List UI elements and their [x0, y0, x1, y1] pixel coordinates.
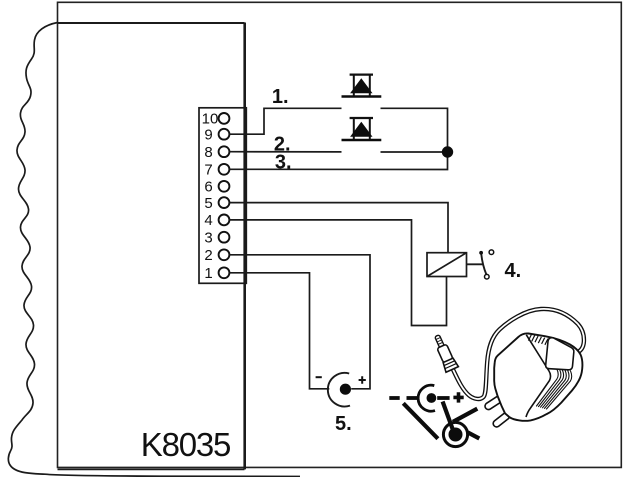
- pin 5: [219, 197, 230, 208]
- plug barrel pin: [449, 428, 463, 442]
- switch terminal bottom: [485, 274, 490, 279]
- pin 6: [219, 181, 230, 192]
- adapter side ridges: [537, 369, 572, 409]
- adapter body: [494, 333, 582, 420]
- pin 8: [219, 146, 230, 157]
- polarity barrel arc: [418, 385, 435, 411]
- wire pin 4 to relay coil bottom: [229, 220, 446, 326]
- svg-text:4: 4: [204, 212, 212, 229]
- pin 9: [219, 129, 230, 140]
- wire pin 2 to supply positive: [229, 255, 370, 389]
- adapter top hatch: [528, 334, 551, 345]
- svg-text:3.: 3.: [275, 151, 292, 173]
- plug sketch line upper right: [453, 409, 477, 422]
- pin 2: [219, 249, 230, 260]
- adapter label panel: [546, 338, 574, 370]
- pin 1: [219, 267, 230, 278]
- svg-text:5.: 5.: [335, 413, 352, 435]
- svg-text:2: 2: [204, 247, 212, 264]
- svg-text:4.: 4.: [505, 260, 522, 282]
- svg-text:3: 3: [204, 229, 212, 246]
- switch terminal top: [489, 250, 494, 255]
- svg-text:K8035: K8035: [141, 426, 230, 463]
- DC plug: [431, 333, 459, 372]
- relay actuating link: [467, 263, 484, 265]
- svg-text:5: 5: [204, 195, 212, 212]
- connector SK1 box: [199, 108, 246, 283]
- pin 7: [219, 164, 230, 175]
- DC power input connector (5.): [316, 373, 366, 407]
- svg-text:9: 9: [204, 126, 212, 143]
- svg-text:1.: 1.: [272, 86, 289, 108]
- wire pin 7 common return (circuit 3): [229, 152, 447, 170]
- wire LED2 cathode to junction: [381, 151, 448, 153]
- plug sketch line long: [403, 403, 438, 438]
- svg-text:10: 10: [202, 111, 219, 128]
- wire pin 1 to supply negative: [229, 273, 329, 389]
- plug sketch line from pin: [443, 402, 453, 430]
- polarity dash right: [437, 396, 449, 400]
- svg-text:1: 1: [204, 265, 212, 282]
- wire pin 5 to relay coil top: [229, 203, 448, 253]
- polarity dash left: [407, 396, 418, 400]
- pin 4: [219, 215, 230, 226]
- svg-text:6: 6: [204, 179, 212, 196]
- adapter face edge: [526, 335, 551, 417]
- wire LED1 cathode to junction: [381, 108, 448, 152]
- LED 2: [342, 118, 382, 140]
- junction node: [442, 146, 453, 157]
- pin 3: [219, 232, 230, 243]
- polarity plus: [453, 392, 463, 402]
- pin 10: [219, 113, 230, 124]
- LED 1: [342, 75, 382, 97]
- polarity mark minus: [389, 396, 399, 400]
- svg-text:8: 8: [204, 144, 212, 161]
- wire pin 9 to LED1 anode (circuit 1): [229, 108, 341, 134]
- plug barrel circle: [443, 422, 467, 446]
- switch contact lever: [481, 254, 486, 275]
- switch common dot: [479, 251, 483, 255]
- plug sketch line lower right: [468, 432, 480, 438]
- adapter cable: [453, 309, 584, 399]
- adapter prong 2: [492, 411, 511, 428]
- svg-text:7: 7: [204, 162, 212, 179]
- wire pin 8 to LED2 anode (circuit 2): [229, 151, 341, 153]
- board K8035 outline: [58, 23, 245, 470]
- adapter prong 1: [484, 395, 504, 411]
- relay coil RY1: [427, 253, 467, 277]
- polarity center pin: [427, 393, 437, 403]
- board torn left edge (wavy): [8, 23, 300, 477]
